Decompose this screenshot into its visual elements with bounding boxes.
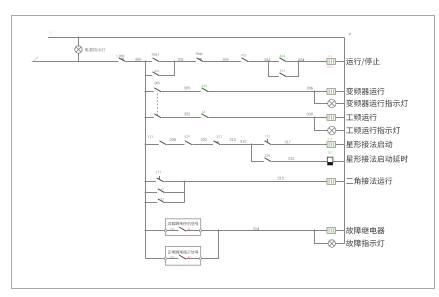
wire rung 3 [146, 117, 328, 119]
node 313 [278, 177, 284, 180]
test box overload signal [164, 219, 201, 236]
wire top power rail [48, 37, 345, 39]
node 320 [201, 138, 207, 141]
node 308 [307, 113, 313, 116]
wire rung 5 coil to rail [336, 181, 345, 183]
contact M selector (NO) [154, 82, 162, 93]
label 工频运行 [346, 114, 376, 121]
wire rung 5 branch vertical [184, 182, 186, 203]
junction bus rung5 [145, 181, 147, 183]
label top rail source [49, 31, 52, 33]
wire rung 4 [146, 144, 328, 146]
wire rung 1 coil to rail [336, 61, 345, 63]
contact M selector 2 (NO) [154, 114, 162, 119]
node 310b [240, 140, 246, 143]
node 317 [285, 141, 291, 144]
coil K6 fault relay [327, 228, 336, 234]
wire fault rung [146, 230, 328, 232]
label 变频器运行指示灯 [346, 100, 408, 107]
lamp HL2 mains run indicator [328, 126, 336, 134]
junction bus rung5a [145, 192, 147, 194]
label 工频运行指示灯 [346, 127, 400, 134]
node 310 [230, 138, 236, 141]
wire fault coil to rail [336, 230, 345, 232]
wire rung 4 coil to rail [336, 144, 345, 146]
contact mains enable (NO) [201, 111, 209, 119]
wire right output rail [344, 38, 346, 244]
label 正常跳闸指示信号 [168, 250, 199, 254]
junction fault lamp tap [314, 230, 316, 232]
junction inverter lamp tap [314, 91, 316, 93]
label 运行/停止 [346, 58, 380, 66]
wire timer to rail [333, 161, 345, 163]
wire star-delay timer branch [252, 145, 328, 162]
label 变频器运行 [346, 88, 384, 95]
test box normal signal [164, 246, 201, 265]
wire rung 5 [146, 181, 328, 183]
node 200 [135, 58, 141, 61]
coil K3 mains run [327, 115, 336, 121]
contact delta c1 (NC) [156, 171, 164, 183]
node 305 [184, 87, 190, 90]
timer T1 star delay [327, 152, 333, 166]
contact Start (NO) [152, 53, 160, 63]
contact star c1 (NO) [159, 141, 167, 146]
contact SB0 disconnect (NC) [116, 55, 126, 63]
coil K5 delta run [327, 179, 336, 185]
junction fault branch2 [218, 230, 220, 232]
junction rung5 branch [184, 181, 186, 183]
junction branch2 left [268, 61, 270, 63]
wire inverter lamp branch [315, 92, 329, 104]
junction bus rung5b [145, 202, 147, 204]
label 三角接法运行(二角) [346, 177, 392, 184]
contact branch2 (NO) [279, 70, 287, 78]
wire mains lamp to rail [336, 130, 345, 132]
contact delta branch b (NO) [157, 198, 165, 204]
wire rung 2 [146, 91, 328, 93]
wire rung 3 coil to rail [336, 117, 345, 119]
lamp HL0 power indicator [75, 46, 82, 53]
node 302 [223, 58, 229, 61]
node 306 [307, 87, 313, 90]
mechanical link dashed [157, 94, 159, 116]
node 307 [184, 113, 190, 116]
junction bus rung2 [145, 91, 147, 93]
contact star c2 (NO) [184, 135, 192, 145]
node 304 [298, 59, 304, 62]
contact KM interlock (NO) [241, 54, 249, 63]
junction power lamp top [78, 37, 80, 39]
junction bus rung4 [145, 144, 147, 146]
wire fault lamp branch [315, 231, 329, 244]
lamp HL3 fault indicator [328, 240, 335, 247]
junction timer tap [251, 144, 253, 146]
contact timer branch (NO) [264, 154, 272, 162]
junction bus fault [145, 230, 147, 232]
contact star c4 (NC) [264, 135, 272, 146]
wire continuation arrow top right [349, 33, 352, 36]
junction mains lamp tap [314, 117, 316, 119]
wire rung 1 [32, 61, 327, 63]
node 314 [253, 227, 259, 230]
node 312 [288, 157, 294, 160]
coil K4 star start [327, 138, 336, 148]
wire mains lamp branch [315, 118, 329, 131]
wire fault branch 2 [146, 231, 219, 259]
wire fault lamp to rail [336, 243, 345, 245]
contact Stop (NC) [196, 52, 204, 62]
wire rung 1 seal-in branch [146, 62, 175, 76]
wire rung 1 parallel branch 2 [269, 62, 299, 77]
contact delta branch a (NO) [157, 188, 165, 194]
junction seal branch right [174, 61, 176, 63]
wire power lamp branch [78, 38, 80, 62]
label 过载跳闸停机信号 [168, 222, 199, 226]
lamp HL1 inverter run indicator [328, 99, 336, 107]
label K1 coil sub [327, 66, 334, 68]
node 309 [170, 138, 176, 141]
wire left bus [145, 62, 147, 259]
wire rung 2 coil to rail [336, 91, 345, 93]
junction bus rung3 [145, 117, 147, 119]
label 电源指示灯 [85, 48, 105, 52]
contact run enable (NO) [279, 55, 287, 63]
node 311 green [148, 135, 153, 137]
contact K1 seal-in (NO) [152, 70, 160, 77]
coil K2 inverter run [327, 89, 336, 95]
junction branch2 right [298, 61, 300, 63]
label 故障继电器 [346, 227, 385, 234]
label 故障指示灯 [346, 240, 384, 247]
wire rung 5 branch b [146, 202, 185, 204]
contact inverter enable (NO) [201, 85, 209, 93]
wire inverter lamp to rail [336, 103, 345, 105]
node 201 [178, 58, 184, 61]
label 星形接法启动延时 [346, 155, 408, 162]
wire continuation mark rung 1 left [33, 57, 39, 62]
wire rung 5 branch a [146, 192, 185, 194]
coil K1 run/stop [327, 55, 336, 64]
label 星形接法启动 [346, 141, 392, 148]
node 303 [264, 59, 270, 62]
junction bus top [145, 61, 147, 63]
contact star c3 (NC) [213, 135, 222, 145]
